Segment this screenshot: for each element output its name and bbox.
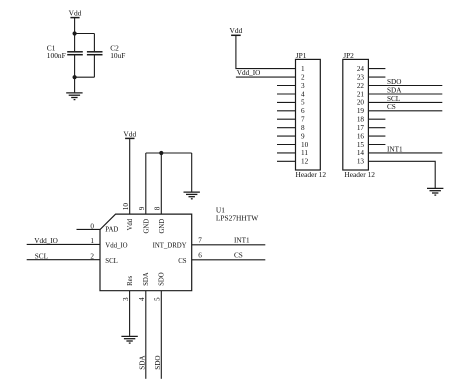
svg-text:1: 1	[90, 237, 94, 245]
capacitor C1	[47, 44, 83, 61]
pin 0 PAD wire	[77, 228, 101, 230]
svg-text:INT1: INT1	[234, 237, 250, 245]
svg-text:CS: CS	[234, 252, 243, 260]
svg-text:PAD: PAD	[105, 227, 118, 234]
wire pin 8	[160, 153, 162, 214]
JP1 pin 10 stub	[277, 144, 296, 146]
svg-text:19: 19	[357, 107, 365, 115]
svg-text:INT_DRDY: INT_DRDY	[153, 243, 187, 250]
power flag Vdd (JP1)	[230, 26, 243, 35]
IC U1 LPS27HHTW body	[100, 206, 258, 291]
wire	[93, 55, 95, 77]
svg-text:18: 18	[357, 116, 365, 124]
svg-text:7: 7	[198, 237, 202, 245]
svg-text:SDO: SDO	[154, 355, 162, 369]
svg-text:23: 23	[357, 73, 365, 81]
svg-text:LPS27HHTW: LPS27HHTW	[216, 213, 258, 222]
svg-text:Vdd: Vdd	[123, 130, 136, 139]
JP2 pin 16 stub	[368, 135, 385, 137]
JP2 pin 17 stub	[368, 127, 385, 129]
svg-text:SDO: SDO	[159, 272, 166, 286]
svg-text:7: 7	[301, 116, 305, 124]
svg-text:9: 9	[301, 132, 305, 140]
JP1 pin 9 stub	[277, 135, 296, 137]
JP1 pin 12 stub	[277, 160, 296, 162]
svg-text:SDA: SDA	[143, 272, 150, 286]
pin 7 wire INT1	[192, 244, 266, 246]
JP2 pin 15 stub	[368, 144, 385, 146]
JP1 pin 3 stub	[277, 85, 296, 87]
pin 4 wire SDA	[145, 291, 147, 379]
connector JP1	[296, 51, 327, 179]
svg-text:8: 8	[301, 124, 305, 132]
svg-text:14: 14	[357, 149, 365, 157]
svg-text:24: 24	[357, 65, 365, 73]
svg-text:21: 21	[357, 90, 365, 98]
pin 3 wire Res	[129, 291, 131, 336]
svg-text:INT1: INT1	[387, 145, 403, 153]
JP2 pin 14 wire INT1	[368, 152, 442, 154]
JP1 pin 7 stub	[277, 118, 296, 120]
svg-text:13: 13	[357, 158, 365, 166]
svg-text:CS: CS	[387, 103, 396, 111]
svg-text:SCL: SCL	[35, 253, 48, 261]
JP2 pin 22 wire SDO	[368, 85, 442, 87]
ground	[427, 188, 443, 195]
svg-text:Vdd: Vdd	[127, 218, 134, 230]
svg-text:SDA: SDA	[387, 86, 402, 94]
power flag Vdd (decoupling caps)	[69, 9, 82, 18]
JP2 pin 21 wire SDA	[368, 93, 442, 95]
svg-text:Vdd_IO: Vdd_IO	[237, 69, 261, 77]
wire	[236, 35, 296, 68]
pin 1 wire Vdd_IO	[27, 243, 100, 245]
wire	[191, 153, 193, 192]
ground	[184, 192, 200, 199]
svg-text:6: 6	[198, 252, 202, 260]
svg-text:20: 20	[357, 99, 365, 107]
svg-text:Vdd: Vdd	[69, 9, 82, 18]
svg-text:9: 9	[138, 206, 146, 210]
svg-text:JP1: JP1	[296, 51, 307, 60]
svg-text:10uF: 10uF	[110, 51, 125, 60]
svg-text:10: 10	[122, 203, 130, 211]
svg-text:11: 11	[301, 149, 308, 157]
ground	[121, 336, 137, 343]
svg-text:3: 3	[301, 82, 305, 90]
wire	[93, 34, 95, 52]
pin 2 wire SCL	[27, 259, 100, 261]
svg-text:6: 6	[301, 107, 305, 115]
JP2 pin 13 wire to ground	[368, 161, 435, 188]
wire	[75, 76, 95, 78]
JP2 pin 19 wire CS	[368, 110, 442, 112]
pin 5 wire SDO	[160, 291, 162, 379]
JP2 pin 20 wire SCL	[368, 101, 442, 103]
svg-text:GND: GND	[159, 219, 166, 234]
node junction	[159, 151, 163, 155]
JP1 pin 11 stub	[277, 152, 296, 154]
JP1 pin 6 stub	[277, 110, 296, 112]
node junction	[73, 31, 77, 35]
svg-text:Vdd_IO: Vdd_IO	[34, 237, 58, 245]
node junction	[73, 75, 77, 79]
JP1 pin 8 stub	[277, 127, 296, 129]
wire	[74, 77, 76, 92]
svg-text:5: 5	[301, 99, 305, 107]
svg-text:SCL: SCL	[105, 258, 117, 265]
wire	[74, 55, 76, 77]
svg-text:3: 3	[122, 297, 130, 301]
JP1 pin 4 stub	[277, 93, 296, 95]
svg-text:GND: GND	[143, 219, 150, 234]
wire GND net	[146, 152, 192, 154]
svg-text:Res: Res	[127, 275, 134, 286]
svg-text:Header 12: Header 12	[296, 170, 327, 179]
svg-text:2: 2	[90, 253, 94, 261]
JP2 pin 23 stub	[368, 76, 385, 78]
svg-text:1: 1	[301, 65, 305, 73]
svg-text:100nF: 100nF	[47, 51, 66, 60]
JP2 pin numbers 24-13	[357, 65, 365, 166]
ground	[66, 93, 82, 100]
svg-text:16: 16	[357, 132, 365, 140]
svg-text:4: 4	[138, 297, 146, 301]
power flag Vdd (U1 pin 10)	[123, 130, 136, 139]
JP2 pin 18 stub	[368, 118, 385, 120]
svg-text:SCL: SCL	[387, 95, 400, 103]
wire	[74, 34, 76, 52]
svg-text:2: 2	[301, 73, 305, 81]
svg-text:17: 17	[357, 124, 365, 132]
svg-text:Vdd_IO: Vdd_IO	[105, 243, 127, 250]
svg-text:4: 4	[301, 90, 305, 98]
connector JP2	[343, 51, 375, 179]
svg-text:0: 0	[90, 222, 94, 230]
svg-text:Header 12: Header 12	[344, 170, 375, 179]
pin 6 wire CS	[192, 259, 266, 261]
wire pin 9	[145, 153, 147, 214]
wire pin 10	[129, 138, 131, 214]
svg-text:22: 22	[357, 82, 365, 90]
svg-text:JP2: JP2	[343, 51, 354, 60]
JP1 pin numbers 1-12	[301, 65, 309, 166]
wire JP1 pin 2	[236, 76, 296, 78]
JP2 pin 24 stub	[368, 68, 385, 70]
svg-text:5: 5	[154, 297, 162, 301]
svg-text:8: 8	[154, 206, 162, 210]
svg-text:10: 10	[301, 141, 309, 149]
svg-text:Vdd: Vdd	[230, 26, 243, 35]
wire	[75, 33, 95, 35]
svg-text:SDA: SDA	[138, 355, 146, 370]
svg-text:15: 15	[357, 141, 365, 149]
wire	[74, 18, 76, 34]
JP1 pin 5 stub	[277, 101, 296, 103]
svg-text:12: 12	[301, 158, 309, 166]
capacitor C2	[87, 44, 126, 61]
svg-text:CS: CS	[178, 258, 187, 265]
svg-text:SDO: SDO	[387, 78, 401, 86]
